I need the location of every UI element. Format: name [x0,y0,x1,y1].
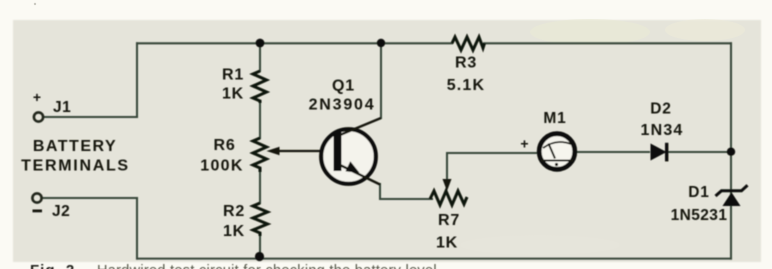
svg-text:+: + [33,89,41,105]
svg-text:1K: 1K [222,86,244,103]
svg-text:R2: R2 [223,203,245,220]
svg-text:TERMINALS: TERMINALS [21,158,130,175]
wire left vertical lower [136,198,138,259]
junction dot A [256,39,265,48]
paper speck [34,3,36,5]
wire R7 wiper to meter [447,153,537,182]
resistor R2 [253,203,268,236]
junction dot B [377,39,385,47]
J2 minus bar [33,210,43,213]
wire D2 to node [667,151,731,153]
wire J2 horizontal [43,197,137,199]
resistor R1 [253,71,267,103]
svg-text:R3: R3 [455,55,477,72]
svg-text:1N5231: 1N5231 [671,207,728,224]
svg-text:+: + [520,136,528,152]
wire meter to D2 [577,151,649,153]
junction dot D [255,252,264,261]
wire top left segment [137,42,452,44]
panel tint patch 2 [665,19,745,41]
terminal J2 [32,193,41,202]
potentiometer R6 [253,138,267,172]
wire emitter to R7 [380,184,432,199]
R6 wiper arrow [267,147,337,155]
svg-text:Fig. 2: Fig. 2 [30,262,75,269]
svg-text:Hardwired test circuit for che: Hardwired test circuit for checking the … [97,263,437,269]
wire left vertical upper [136,43,138,117]
svg-text:1K: 1K [436,235,458,252]
svg-text:J1: J1 [53,99,71,116]
svg-text:100K: 100K [200,158,243,175]
diode D2 [651,143,669,162]
svg-text:R7: R7 [438,212,460,229]
junction dot C [727,148,735,156]
svg-text:R1: R1 [222,67,244,84]
svg-text:1K: 1K [223,223,245,240]
svg-text:D2: D2 [650,101,671,118]
svg-text:Q1: Q1 [332,78,355,95]
meter M1 [539,134,575,170]
svg-text:R6: R6 [213,137,235,154]
zener diode D1 [716,185,748,206]
R7 wiper arrow [443,179,452,191]
wire R1 top lead [259,43,261,71]
panel tint patch 3 [460,235,620,255]
svg-text:2N3904: 2N3904 [309,97,376,114]
resistor R3 [452,37,485,50]
svg-text:1N34: 1N34 [640,122,683,139]
wire J1 horizontal [44,116,137,118]
terminal J1 [34,112,43,121]
svg-text:5.1K: 5.1K [447,77,486,94]
rheostat R7 [430,191,467,205]
wire R2 bottom lead [259,236,261,259]
svg-text:BATTERY: BATTERY [33,138,117,155]
wire bottom rail [137,258,731,260]
svg-text:M1: M1 [543,110,566,127]
panel tint patch 1 [530,19,650,45]
wire R6-R2 link [259,172,261,203]
wire top right segment [484,42,731,44]
wire right vertical [730,43,732,258]
wire R1-R6 link [259,103,261,138]
svg-text:J2: J2 [52,203,70,220]
svg-text:D1: D1 [688,184,709,201]
transistor Q1 [321,118,381,185]
wire collector vertical [380,43,382,118]
